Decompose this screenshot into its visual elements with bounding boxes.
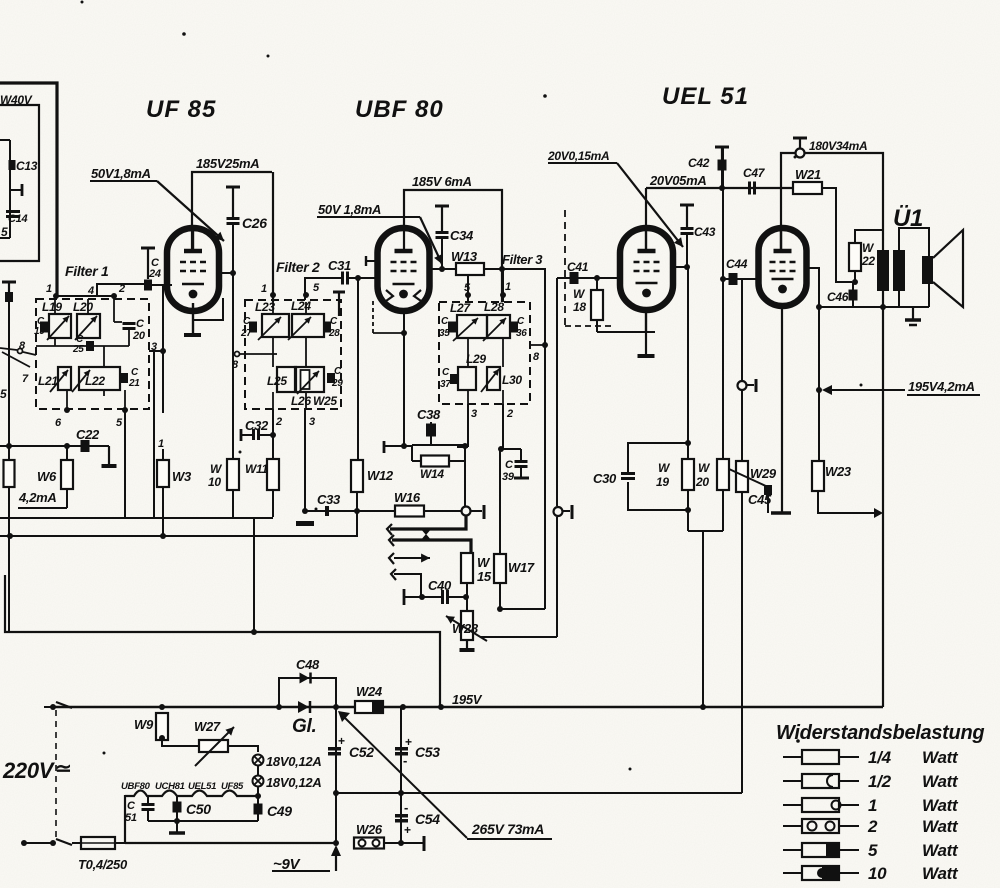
svg-text:W26: W26 xyxy=(356,822,383,837)
capacitor C31 xyxy=(328,258,351,285)
svg-text:L30: L30 xyxy=(502,373,522,387)
speaker cone xyxy=(933,230,963,307)
svg-text:C49: C49 xyxy=(267,803,292,819)
wire grid line x163 xyxy=(162,285,164,413)
wire bottom secondary xyxy=(819,306,929,308)
coil L27 xyxy=(450,301,487,341)
svg-text:≃: ≃ xyxy=(55,758,71,780)
capacitor C34 xyxy=(436,228,475,243)
diode bowtie xyxy=(420,528,432,541)
svg-text:20: 20 xyxy=(132,330,146,342)
wire tube4 grid right xyxy=(806,268,822,461)
svg-text:1: 1 xyxy=(261,283,267,295)
box W40V oscillator section xyxy=(0,105,39,261)
svg-text:C: C xyxy=(517,316,525,327)
svg-text:UCH81: UCH81 xyxy=(155,781,185,792)
wire long x723 xyxy=(720,147,726,459)
box C30 xyxy=(628,443,691,513)
label UBF 80 xyxy=(355,96,444,123)
wire W10W11 drop xyxy=(251,517,257,635)
svg-text:C: C xyxy=(330,316,338,327)
capacitor C40 xyxy=(404,578,469,605)
wire W13 out xyxy=(484,266,545,609)
heater humps xyxy=(125,791,258,797)
svg-text:W24: W24 xyxy=(356,684,383,699)
capacitor C25 xyxy=(72,334,94,355)
svg-text:1/2: 1/2 xyxy=(868,772,892,791)
filter1 pin 3 xyxy=(151,341,157,353)
svg-text:185V 6mA: 185V 6mA xyxy=(412,174,472,189)
wire tube3 g2 right xyxy=(673,264,690,270)
wire W16 to poti xyxy=(424,510,461,512)
wire bottom rail right xyxy=(384,836,424,851)
speaker coil xyxy=(922,256,933,284)
wire screen UBF80 xyxy=(429,268,456,270)
capacitor C27 xyxy=(240,316,257,339)
resistor W6 xyxy=(37,460,73,489)
wire filter2 pin1 riser xyxy=(272,172,274,302)
wire W12 line xyxy=(357,278,359,460)
coil L28 xyxy=(483,300,510,341)
svg-text:-: - xyxy=(404,800,408,815)
svg-text:Watt: Watt xyxy=(922,817,959,836)
wire W10 W11 bottoms xyxy=(233,490,273,517)
capacitor C43 xyxy=(680,205,716,267)
coil L23 xyxy=(255,300,289,340)
capacitor C13 xyxy=(9,159,38,173)
bar cathode tube4 xyxy=(771,511,791,515)
svg-text:Watt: Watt xyxy=(922,864,959,883)
box W14 xyxy=(384,441,468,461)
svg-text:UBF 80: UBF 80 xyxy=(355,96,444,123)
transformer secondary xyxy=(893,228,929,307)
label 5 xyxy=(1,225,8,239)
svg-text:UEL 51: UEL 51 xyxy=(662,83,749,110)
wire 265V node rail xyxy=(336,790,742,796)
label 195V42mA xyxy=(907,379,980,395)
legend 1/4 Watt xyxy=(783,748,959,767)
wire C53 line xyxy=(400,704,406,793)
resistor W16 xyxy=(394,490,424,517)
label 195V xyxy=(452,692,483,707)
resistor W9 xyxy=(134,704,168,741)
resistor W26 xyxy=(354,822,384,849)
svg-text:37: 37 xyxy=(440,379,451,390)
resistor W29 line top xyxy=(741,279,743,380)
svg-text:W25: W25 xyxy=(313,394,337,408)
wire cathode rail y632 xyxy=(5,575,444,710)
svg-text:L19: L19 xyxy=(42,300,62,314)
svg-text:W27: W27 xyxy=(194,719,221,734)
svg-text:L26: L26 xyxy=(291,394,311,408)
coil L22 xyxy=(72,367,120,392)
svg-text:C42: C42 xyxy=(688,156,710,170)
capacitor C46 xyxy=(827,282,858,307)
heater bottom rail xyxy=(148,814,258,821)
wire lamp link xyxy=(257,766,259,776)
wire C52 line xyxy=(333,707,339,846)
wire left trimmer line xyxy=(2,282,16,632)
svg-text:15: 15 xyxy=(477,569,492,584)
svg-text:C: C xyxy=(505,459,514,471)
capacitor C38 xyxy=(417,407,441,445)
svg-text:Watt: Watt xyxy=(922,748,959,767)
wire g3 link UBF80 xyxy=(373,300,407,336)
label W40V xyxy=(0,93,33,107)
wire C33 to W16 xyxy=(357,510,395,512)
wire primary feed down xyxy=(882,307,884,707)
svg-text:-: - xyxy=(403,753,407,768)
wire pin6 to W6 xyxy=(66,446,68,460)
capacitor C48 loop xyxy=(276,657,339,710)
capacitor C54 xyxy=(395,800,440,837)
svg-text:18: 18 xyxy=(573,300,586,314)
label Filter 2 xyxy=(276,259,320,275)
svg-text:W6: W6 xyxy=(37,469,57,484)
resistor W19 xyxy=(656,443,694,531)
wire W27 to lamps xyxy=(228,746,258,752)
svg-text:4,2mA: 4,2mA xyxy=(18,490,57,505)
label 185V25mA xyxy=(196,156,259,171)
wire filter3 pin2 drop xyxy=(498,404,521,452)
wire AF line B xyxy=(392,540,471,553)
wire C30 W19 line xyxy=(685,267,691,446)
resistor W18 xyxy=(573,278,603,332)
dashed switch link xyxy=(55,710,57,838)
wire W22 bottom xyxy=(852,271,858,285)
wire UF85 g3 hook xyxy=(193,298,223,320)
svg-text:W21: W21 xyxy=(795,167,821,182)
resistor W10 xyxy=(208,459,239,490)
resistor W14 xyxy=(420,456,449,482)
tube UF85 xyxy=(167,228,219,311)
legend 10 Watt xyxy=(783,864,959,883)
filter3 dashed box xyxy=(439,302,530,404)
wire UF85 screen xyxy=(219,272,233,274)
svg-text:22: 22 xyxy=(861,254,875,268)
capacitor C19 xyxy=(34,316,48,337)
wire W29 below bus xyxy=(741,707,743,793)
svg-text:W12: W12 xyxy=(367,468,394,483)
switch mains top xyxy=(44,702,72,710)
wire UBF80 cathode xyxy=(401,311,407,449)
svg-text:W16: W16 xyxy=(394,490,421,505)
svg-text:C: C xyxy=(334,366,342,377)
capacitor C21 xyxy=(120,367,140,389)
wire y517 rail xyxy=(0,517,273,519)
resistor W17 xyxy=(494,554,535,583)
wire pin5 riser xyxy=(124,410,126,517)
wire W9 to W27 xyxy=(162,740,199,746)
svg-text:28: 28 xyxy=(328,328,340,339)
svg-text:19: 19 xyxy=(656,475,669,489)
svg-text:C: C xyxy=(442,367,450,378)
svg-text:18V0,12A: 18V0,12A xyxy=(266,754,321,769)
filter1 pin 1 xyxy=(46,283,59,299)
wire mains bottom stub xyxy=(21,839,72,846)
resistor W22 xyxy=(849,230,883,271)
svg-text:195V4,2mA: 195V4,2mA xyxy=(908,379,975,394)
svg-text:1: 1 xyxy=(158,438,164,450)
svg-text:20V0,15mA: 20V0,15mA xyxy=(547,149,609,163)
svg-text:265V 73mA: 265V 73mA xyxy=(471,821,544,837)
wire W17 line xyxy=(499,449,501,554)
svg-text:2: 2 xyxy=(867,817,878,836)
box small left xyxy=(0,140,10,238)
svg-text:W3: W3 xyxy=(172,469,192,484)
wire poti2 line xyxy=(556,278,558,637)
wire filter1 pin3 link xyxy=(149,348,166,354)
transformer primary xyxy=(877,250,889,310)
resistor W3 xyxy=(157,460,192,487)
capacitor C36 xyxy=(510,316,527,339)
wire filter1 lower xyxy=(67,378,125,410)
capacitor C49 xyxy=(254,803,293,819)
ground C50 xyxy=(169,818,185,833)
label 20V015mA xyxy=(547,149,617,163)
tube UEL51 pentode xyxy=(620,228,673,310)
resistor W5 left edge xyxy=(4,443,15,487)
filter3 pin 1 xyxy=(500,269,511,302)
svg-text:39: 39 xyxy=(502,471,515,483)
coil L25 xyxy=(267,367,296,392)
svg-text:C: C xyxy=(127,800,136,812)
svg-text:W: W xyxy=(477,555,491,570)
ground filter2 pin3 xyxy=(296,508,314,526)
svg-text:C: C xyxy=(136,318,145,330)
filter2 dashed box xyxy=(245,300,341,409)
svg-text:C30: C30 xyxy=(593,471,617,486)
svg-text:5: 5 xyxy=(868,841,878,860)
wire C45 tap xyxy=(729,469,768,487)
capacitor C42 xyxy=(688,147,729,191)
wire W6 bottom xyxy=(66,489,68,508)
capacitor C44 xyxy=(723,257,758,285)
wire W29 bottom xyxy=(741,492,743,707)
filter1 pin 8 xyxy=(19,340,26,352)
label UF 85 xyxy=(146,96,216,123)
wire AF line A xyxy=(390,516,466,529)
svg-text:10: 10 xyxy=(208,475,221,489)
filter2 pin 5 xyxy=(303,282,320,298)
wire W14 right xyxy=(449,445,465,506)
resistor W20 xyxy=(695,459,729,531)
svg-text:C46: C46 xyxy=(827,290,849,304)
coil L24 xyxy=(288,299,324,340)
label Filter 1 xyxy=(65,263,109,279)
resistor W15 xyxy=(461,553,492,584)
arrow 50V to UF85 screen xyxy=(157,181,224,241)
legend 2 Watt xyxy=(783,817,959,836)
resistor W21 xyxy=(793,167,822,194)
wire W19 W20 join xyxy=(688,531,723,710)
fuse xyxy=(72,837,125,849)
wire UF85 anode lead xyxy=(192,228,194,251)
svg-text:180V34mA: 180V34mA xyxy=(809,139,867,153)
trimmer cap left xyxy=(9,184,22,196)
svg-text:+: + xyxy=(405,735,412,749)
wire filter1 pin4 riser xyxy=(97,284,148,296)
label 50V1.8mA with underline xyxy=(90,166,157,181)
arrow 50V to UBF80 xyxy=(420,217,442,264)
wire anode rail tube4 xyxy=(781,153,883,251)
svg-text:C: C xyxy=(243,316,251,327)
svg-text:Watt: Watt xyxy=(922,772,959,791)
coil L30 xyxy=(481,367,522,392)
diode Gl xyxy=(292,701,316,737)
svg-text:C22: C22 xyxy=(76,427,100,442)
svg-text:C44: C44 xyxy=(726,257,748,271)
svg-text:W13: W13 xyxy=(451,249,478,264)
resistor W23 xyxy=(812,461,852,491)
wire bottom rail xyxy=(125,842,336,844)
grid cap UBF80 xyxy=(366,256,421,301)
label 9V arrow xyxy=(272,845,341,873)
label 5 left xyxy=(0,387,7,401)
capacitor C50 xyxy=(173,796,212,821)
filter1 pin 6 xyxy=(55,407,70,429)
switch arm left xyxy=(0,348,36,367)
capacitor C41 xyxy=(567,260,589,284)
wire outer box top edge xyxy=(0,83,57,296)
trimmer top C26 xyxy=(226,187,240,217)
svg-text:L24: L24 xyxy=(291,299,311,313)
svg-text:L20: L20 xyxy=(73,300,93,314)
svg-text:51: 51 xyxy=(125,812,137,824)
wire UF85 grid left xyxy=(148,284,172,286)
svg-text:2: 2 xyxy=(275,416,282,428)
label 50V 1.8mA ubf xyxy=(317,202,420,217)
wire C34 down xyxy=(439,239,445,272)
filter3 inner wires xyxy=(468,338,503,404)
svg-text:C43: C43 xyxy=(694,225,716,239)
filter1 pin 2 xyxy=(111,283,125,299)
capacitor C26 xyxy=(227,215,268,231)
svg-text:C48: C48 xyxy=(296,657,320,672)
svg-text:C52: C52 xyxy=(349,744,374,760)
svg-text:C33: C33 xyxy=(317,492,341,507)
capacitor C39 xyxy=(502,449,529,483)
svg-text:C26: C26 xyxy=(242,215,267,231)
svg-text:1: 1 xyxy=(46,283,52,295)
wire W15 bottom xyxy=(466,583,468,597)
svg-text:220V: 220V xyxy=(2,758,56,783)
resistor W29 xyxy=(736,391,777,492)
label fuse xyxy=(78,857,128,872)
svg-text:C53: C53 xyxy=(415,744,440,760)
wire W17 bottom xyxy=(497,583,545,612)
svg-text:5: 5 xyxy=(1,225,8,239)
diode C48 xyxy=(300,673,311,684)
capacitor C53 xyxy=(395,735,440,768)
trimmer filter2 xyxy=(333,292,345,316)
svg-text:Filter 3: Filter 3 xyxy=(502,252,543,267)
wire C54 line xyxy=(398,793,404,846)
wire filter2 inner xyxy=(273,302,306,409)
capacitor C37 xyxy=(440,367,458,390)
resistor W13 xyxy=(451,249,484,275)
filter3 pin 5 xyxy=(464,275,471,302)
filter1 dashed box xyxy=(36,299,149,409)
svg-text:2: 2 xyxy=(506,408,513,420)
svg-text:UEL51: UEL51 xyxy=(188,781,216,792)
ground C22 xyxy=(102,446,117,466)
svg-text:UF 85: UF 85 xyxy=(146,96,216,123)
coil L26 W25 xyxy=(295,367,324,394)
wire W3 bottom xyxy=(162,487,164,536)
svg-text:W11: W11 xyxy=(245,462,269,476)
wire tube3 cathode xyxy=(597,310,655,332)
svg-text:1: 1 xyxy=(868,796,877,815)
dashed line AM switch xyxy=(564,210,566,326)
wire filter3 pin3 drop xyxy=(457,404,477,447)
coil L19 xyxy=(42,300,71,340)
svg-text:+: + xyxy=(404,823,411,837)
svg-text:W29: W29 xyxy=(750,466,777,481)
wire 20V rail xyxy=(646,187,793,189)
wire W21 out xyxy=(822,188,852,282)
labels L26 W25 xyxy=(291,394,337,408)
legend 1 Watt xyxy=(783,796,959,815)
jack poti3 xyxy=(738,379,757,392)
capacitor C47 xyxy=(743,166,766,195)
capacitor C52 xyxy=(328,734,374,760)
wire W12 bottom xyxy=(354,492,360,536)
main bus 195V xyxy=(53,706,883,708)
label W28 xyxy=(452,621,479,636)
filter2 pin 1 xyxy=(261,283,276,298)
capacitor C28 xyxy=(323,316,340,339)
wire filter1 box right edge xyxy=(153,352,155,518)
wire filter1 inner risers xyxy=(55,296,122,322)
arrow line C xyxy=(389,553,430,564)
svg-text:W23: W23 xyxy=(825,464,852,479)
legend 5 Watt xyxy=(783,841,959,860)
label 220V xyxy=(2,758,71,783)
svg-text:+: + xyxy=(338,734,345,748)
svg-text:C13: C13 xyxy=(16,159,38,173)
wire W28 wiper out xyxy=(480,636,557,638)
resistor W24 xyxy=(355,684,383,713)
coil L21 xyxy=(38,367,71,392)
svg-text:W28: W28 xyxy=(452,621,479,636)
wire filter2 pin3 riser xyxy=(305,409,315,511)
ground tube3 xyxy=(638,332,655,356)
svg-text:C38: C38 xyxy=(417,407,441,422)
svg-text:W40V: W40V xyxy=(0,93,33,107)
svg-text:5: 5 xyxy=(0,387,7,401)
label 20V05mA xyxy=(649,173,706,188)
wire W14 left xyxy=(412,460,421,462)
label U1 xyxy=(893,205,923,232)
capacitor C30 xyxy=(593,471,635,486)
svg-text:21: 21 xyxy=(128,378,140,389)
wire filter2 pin2 riser xyxy=(273,409,282,459)
svg-text:Gl.: Gl. xyxy=(292,716,316,737)
chevron A xyxy=(387,524,392,535)
capacitor C29 xyxy=(327,366,343,389)
label 185V 6mA xyxy=(412,174,472,189)
svg-text:185V25mA: 185V25mA xyxy=(196,156,259,171)
chevron B xyxy=(389,535,394,546)
box W18 xyxy=(565,325,613,327)
wire lamp to chain xyxy=(255,787,261,808)
wire tube3 grid xyxy=(557,275,620,281)
wire UF85 cathode xyxy=(192,303,194,333)
wire tube3 anode xyxy=(645,188,647,251)
svg-text:C: C xyxy=(441,316,449,327)
capacitor C33 xyxy=(305,492,357,516)
